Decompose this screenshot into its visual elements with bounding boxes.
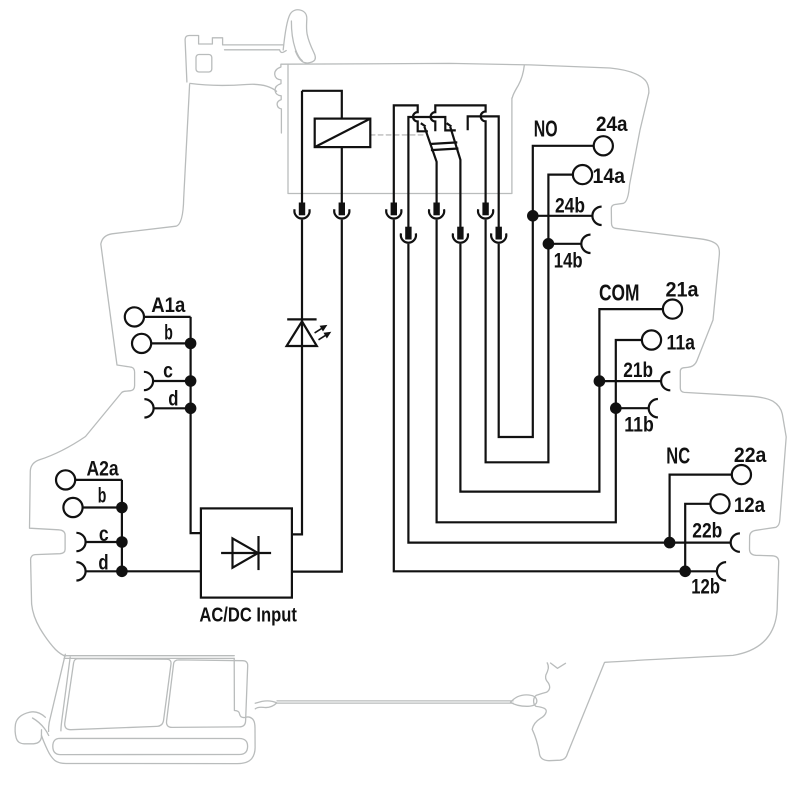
wire loop 12 to NC terminals <box>394 220 717 572</box>
terminal 24a circle <box>594 136 613 155</box>
LED D1 <box>287 319 317 346</box>
svg-text:A2a: A2a <box>87 456 120 480</box>
LED arrows <box>315 326 331 340</box>
terminal A1b circle <box>132 334 151 353</box>
wire coil top jog <box>302 91 342 119</box>
svg-text:NO: NO <box>534 115 558 141</box>
wire A2c <box>86 541 122 543</box>
svg-text:22a: 22a <box>734 443 767 467</box>
terminal 12b socket <box>717 562 726 580</box>
DIN rail top line inner <box>277 702 513 704</box>
housing clip body top-left <box>185 36 283 83</box>
BLACK_SCHEMATIC_START <box>56 91 751 598</box>
svg-text:b: b <box>98 483 107 507</box>
svg-text:21a: 21a <box>666 278 700 302</box>
terminal A2c socket <box>76 533 85 551</box>
contact NO1 fixed: pin 486 up, over, down to open tip <box>431 105 486 203</box>
svg-text:12b: 12b <box>691 575 720 599</box>
housing foot leg diagonal inner <box>61 657 70 731</box>
housing release lever inner contour <box>291 21 302 61</box>
svg-text:COM: COM <box>599 279 640 305</box>
terminal 12a circle <box>710 494 729 513</box>
contact NC2 fixed rail from pin 408 <box>408 117 455 228</box>
wire A1c <box>153 380 191 382</box>
junction 12b <box>679 566 691 578</box>
junction A2c <box>116 536 128 548</box>
terminal A1a circle <box>125 307 144 326</box>
housing rail clamp right <box>532 663 604 761</box>
svg-text:12a: 12a <box>734 493 766 517</box>
svg-text:b: b <box>164 320 173 344</box>
wire A2b <box>83 506 122 508</box>
arm pole2 tip tick <box>447 123 452 126</box>
svg-text:11b: 11b <box>624 413 654 437</box>
svg-text:c: c <box>163 358 173 382</box>
junction 22b <box>664 537 676 549</box>
mechanical link crossbar lower <box>431 149 459 151</box>
housing clip lower ledge <box>225 50 287 53</box>
wire 21b stub <box>599 380 661 382</box>
wire 14b stub <box>548 243 581 245</box>
wire A2d to rectifier <box>86 570 201 572</box>
svg-text:A1a: A1a <box>151 293 186 317</box>
junction A1b <box>185 338 197 350</box>
junction A1d <box>185 403 197 415</box>
terminal 14b socket <box>581 235 590 253</box>
contact NO2 fixed: pin 500 up, left, down to open tip <box>468 116 499 227</box>
wire coil left lead A1 side <box>301 91 303 204</box>
housing foot leg diagonal outer <box>49 654 66 731</box>
terminal 11a circle <box>642 330 661 349</box>
terminal 22b socket <box>731 533 740 551</box>
wire loop 14 to NO terminals <box>486 175 573 463</box>
junction A2b <box>116 502 128 514</box>
DIN rail bottom sled <box>53 738 248 754</box>
contact movable arm pole2 COM <box>450 127 460 228</box>
svg-text:24b: 24b <box>555 194 585 218</box>
wire A1a <box>144 316 191 318</box>
relay enclosure box <box>288 65 512 194</box>
DIN rail foot hook left <box>15 712 45 744</box>
wire 11b stub <box>616 407 649 409</box>
junction A2d <box>116 566 128 578</box>
svg-text:c: c <box>99 522 109 546</box>
pin P8 contact 24 <box>491 228 506 243</box>
terminal 21a circle <box>663 300 682 319</box>
terminal 21b socket <box>661 372 670 390</box>
relay coil K1 <box>315 119 371 148</box>
terminal 14a circle <box>573 165 592 184</box>
wire A2 bus <box>121 480 123 571</box>
wire 12a riser <box>685 504 710 572</box>
svg-text:14a: 14a <box>593 164 626 188</box>
pin P1 coil plug contact <box>294 204 309 219</box>
housing top edge <box>281 63 649 93</box>
svg-text:11a: 11a <box>667 330 696 354</box>
junction A1c <box>185 375 197 387</box>
housing clip window <box>196 55 212 73</box>
DIN rail top line <box>277 700 513 702</box>
housing ratchet teeth edge <box>275 64 282 133</box>
housing right edge tiers and mouths <box>605 93 786 662</box>
wire A1b <box>151 342 190 344</box>
pin P4 contact 11 <box>429 204 444 219</box>
pin P7 contact 21 <box>453 228 468 243</box>
svg-text:NC: NC <box>666 443 690 469</box>
housing left edge upper <box>30 85 190 657</box>
housing bottom edge left inner <box>64 657 234 659</box>
DIN rail section bar right <box>167 660 248 728</box>
svg-text:22b: 22b <box>692 519 722 543</box>
svg-text:14b: 14b <box>554 249 583 273</box>
housing release lever outer <box>283 10 315 63</box>
junction 24b <box>527 210 539 222</box>
junction 11b <box>610 402 622 414</box>
terminal A1c socket <box>144 372 153 390</box>
housing top edge right part <box>512 65 524 98</box>
housing bottom edge left <box>64 655 234 657</box>
rectifier diode symbol <box>221 536 271 570</box>
DIN rail foot hook inner contour <box>33 718 49 736</box>
svg-text:d: d <box>168 386 178 410</box>
wire loop 24 to NO terminals <box>499 146 594 437</box>
pin P5 contact 14 <box>478 204 493 219</box>
wire A1 bus to rectifier <box>191 317 201 533</box>
housing rail clamp detail <box>551 663 566 668</box>
terminal A2a circle <box>56 470 75 489</box>
wire 22a riser <box>670 475 732 543</box>
terminal 11b socket <box>649 399 658 417</box>
DIN rail lip beak <box>255 701 277 709</box>
svg-text:d: d <box>98 550 108 574</box>
terminal 22a circle <box>732 465 751 484</box>
wire coil return to rectifier <box>292 220 342 572</box>
TEXT_START <box>87 112 768 627</box>
pin P2 coil plug contact <box>334 204 349 219</box>
contact NC1 fixed: pin 394 up and hook over <box>394 105 428 203</box>
wire coil bottom lead <box>341 147 343 204</box>
arm pole1 tip tick <box>421 123 426 126</box>
wire 24b stub <box>533 215 593 217</box>
junction 21b <box>594 375 606 387</box>
terminal A2b circle <box>63 498 82 517</box>
housing clip bottom edge <box>190 83 277 91</box>
wire loop 22 to NC terminals <box>408 244 731 543</box>
junction 14b <box>543 238 555 250</box>
mechanical link dashed line <box>370 134 424 136</box>
contact movable arm pole1 COM <box>424 127 436 204</box>
terminal A1d socket <box>144 399 153 417</box>
terminal 24b socket <box>592 207 601 225</box>
wire LED branch down <box>292 220 302 535</box>
wire loop 21 to COM terminals <box>460 244 663 492</box>
DIN rail foot outline bottom <box>42 658 256 763</box>
terminal A2d socket <box>76 562 85 580</box>
wire loop 11 to COM terminals <box>437 220 642 523</box>
svg-text:21b: 21b <box>623 358 653 382</box>
rectifier block AC/DC input <box>201 508 292 597</box>
svg-text:24a: 24a <box>596 112 628 136</box>
pin P6 contact 22 <box>401 228 416 243</box>
wire A2a <box>75 479 122 481</box>
pin P3 contact 12 <box>386 204 401 219</box>
mechanical link crossbar upper <box>430 142 458 144</box>
svg-text:AC/DC Input: AC/DC Input <box>199 605 297 627</box>
wire A1d <box>154 407 191 409</box>
DIN rail right end hook <box>511 695 537 706</box>
DIN rail section bar left <box>65 659 171 730</box>
